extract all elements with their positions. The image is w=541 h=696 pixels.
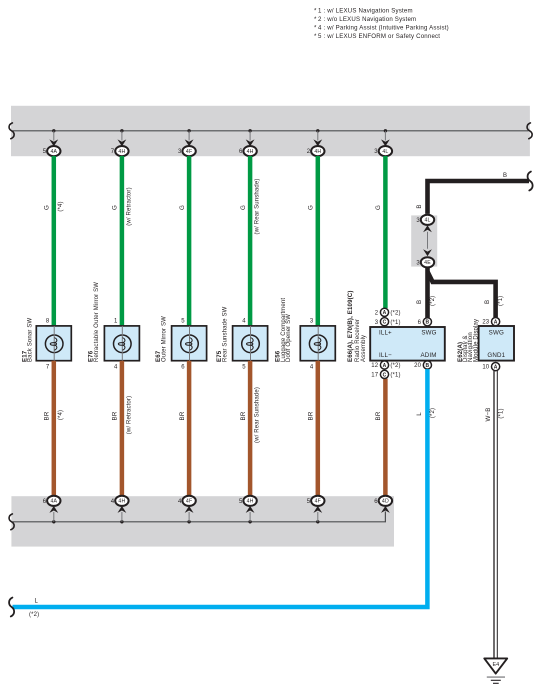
connector 5 (4A) top (43, 131, 61, 156)
svg-text:4: 4 (178, 499, 182, 505)
junction dot, bottom bus col 2 (120, 520, 123, 523)
svg-text:G: G (375, 205, 382, 210)
connector 4 (4F) bottom (178, 496, 196, 513)
connector 4 (4H) bottom (111, 496, 129, 513)
svg-text:4L: 4L (382, 149, 388, 155)
bottom bus shield band (11, 496, 394, 546)
svg-text:3: 3 (178, 149, 182, 155)
svg-text:B: B (426, 363, 430, 369)
svg-text:8: 8 (46, 319, 50, 325)
svg-text:6: 6 (181, 364, 185, 370)
svg-text:20: 20 (414, 363, 421, 369)
svg-text:5: 5 (43, 149, 47, 155)
junction dot, top bus col 2 (120, 129, 123, 132)
svg-text:(*2): (*2) (430, 296, 436, 306)
svg-text:BR: BR (375, 411, 382, 420)
connector 3 (4L) (416, 215, 434, 233)
svg-text:4A: 4A (50, 499, 57, 505)
wire B to radio SWG (416, 267, 436, 318)
svg-text:BR: BR (308, 411, 315, 420)
wire L from radio ADIM to left (13, 369, 437, 618)
wire B branch to display SWG (428, 272, 505, 318)
svg-text:23: 23 (482, 320, 489, 326)
svg-text:4E: 4E (424, 260, 431, 266)
junction dot, top bus col 6 (384, 129, 387, 132)
junction dot, top bus col 3 (187, 129, 190, 132)
svg-text:12: 12 (371, 363, 378, 369)
note legend (314, 7, 449, 40)
svg-text:Outer Mirror SW: Outer Mirror SW (161, 316, 167, 362)
svg-text:BR: BR (112, 411, 119, 420)
svg-text:3: 3 (416, 218, 420, 224)
svg-text:(w/ Rear Sunshade): (w/ Rear Sunshade) (255, 387, 261, 443)
display E62(A) Display & Navigation Module Display (457, 319, 514, 362)
svg-text:10: 10 (482, 365, 489, 371)
svg-text:(*4): (*4) (58, 201, 64, 211)
wire G col 4 (240, 156, 261, 326)
switch E75 Rear Sunshade SW (216, 306, 268, 370)
svg-text:Radio Receiver: Radio Receiver (355, 319, 361, 362)
svg-text:G: G (44, 205, 51, 210)
pin 3 (C) radio (375, 318, 401, 326)
svg-text:17: 17 (371, 373, 378, 379)
bottom bus wire (13, 512, 386, 522)
svg-text:5: 5 (181, 319, 185, 325)
svg-text:L: L (416, 412, 423, 416)
switch E67 Outer Mirror SW (155, 316, 207, 370)
svg-text:ILL−: ILL− (379, 352, 392, 359)
switch E56 Luggage Compartment Door Opener SW (274, 298, 335, 371)
svg-text:(*1): (*1) (390, 320, 400, 326)
svg-text:3: 3 (374, 149, 378, 155)
svg-text:7: 7 (46, 364, 50, 370)
connector 6 (4A) bottom (43, 496, 61, 513)
svg-text:A: A (494, 320, 498, 326)
svg-text:Assembly: Assembly (361, 335, 367, 362)
wire BR col 1 (44, 361, 65, 496)
svg-text:* 5 : w/ LEXUS ENFORM or Safet: * 5 : w/ LEXUS ENFORM or Safety Connect (314, 33, 440, 40)
svg-text:3: 3 (310, 319, 314, 325)
wire W-B from display GND1 to ground (485, 371, 505, 659)
wire BR col 2 (112, 361, 133, 496)
wire BR col 6 (375, 379, 385, 496)
svg-text:4F: 4F (315, 499, 321, 505)
svg-text:2: 2 (307, 149, 311, 155)
svg-text:4H: 4H (118, 149, 125, 155)
svg-text:(w/ Retractor): (w/ Retractor) (126, 187, 132, 225)
wire G col 1 (44, 156, 65, 326)
svg-text:E4: E4 (492, 662, 499, 668)
svg-text:C: C (383, 372, 387, 378)
svg-text:4L: 4L (424, 218, 430, 224)
top bus wire (13, 130, 529, 132)
svg-text:Back Sonar SW: Back Sonar SW (28, 318, 34, 362)
pin 10 (A) display (482, 363, 499, 371)
svg-text:ILL+: ILL+ (379, 330, 392, 337)
svg-text:1: 1 (114, 319, 118, 325)
svg-text:B: B (503, 173, 507, 179)
wire G col 6 (375, 156, 385, 308)
svg-text:6: 6 (374, 499, 378, 505)
svg-text:G: G (240, 205, 247, 210)
pin 12 (A) radio (371, 361, 400, 369)
svg-text:4F: 4F (186, 149, 192, 155)
junction dot, top bus col 1 (52, 129, 55, 132)
svg-text:B: B (484, 300, 491, 304)
svg-text:5: 5 (307, 499, 311, 505)
svg-text:3: 3 (375, 320, 379, 326)
svg-text:Rear Sunshade SW: Rear Sunshade SW (222, 306, 228, 362)
svg-text:(*2): (*2) (430, 408, 436, 418)
svg-text:B: B (416, 204, 423, 208)
svg-text:4H: 4H (118, 499, 125, 505)
svg-text:ADIM: ADIM (420, 352, 436, 359)
svg-text:(*2): (*2) (390, 363, 400, 369)
wire break, wire L left end (9, 598, 14, 617)
svg-text:4: 4 (114, 364, 118, 370)
svg-text:4H: 4H (247, 499, 254, 505)
svg-text:A: A (494, 365, 498, 371)
svg-text:7: 7 (111, 149, 115, 155)
svg-text:W−B: W−B (485, 407, 492, 421)
svg-text:C: C (383, 320, 387, 326)
svg-text:* 4 : w/ Parking Assist (Intui: * 4 : w/ Parking Assist (Intuitive Parki… (314, 25, 449, 32)
connector 3 (4E) (416, 249, 434, 267)
wire G col 3 (179, 156, 189, 326)
svg-text:SWG: SWG (421, 330, 436, 337)
svg-text:4H: 4H (314, 149, 321, 155)
junction dot, bottom bus col 5 (316, 520, 319, 523)
junction dot, bottom bus col 1 (52, 520, 55, 523)
pin 17 (C) radio (371, 370, 400, 378)
junction dot, top bus col 4 (248, 129, 251, 132)
connector 5 (4H) bottom (239, 496, 257, 513)
svg-text:E66(A), E70(B), E109(C): E66(A), E70(B), E109(C) (347, 290, 354, 362)
connector 3 (4F) top (178, 131, 196, 156)
svg-text:2: 2 (375, 310, 379, 316)
svg-text:6: 6 (43, 499, 47, 505)
svg-text:(*2): (*2) (390, 310, 400, 316)
wire break, wire B right end (528, 172, 533, 191)
svg-text:A: A (383, 363, 387, 369)
svg-text:4F: 4F (186, 499, 192, 505)
svg-text:SWG: SWG (489, 329, 504, 336)
svg-text:4: 4 (242, 319, 246, 325)
svg-text:BR: BR (179, 411, 186, 420)
svg-text:GND1: GND1 (487, 352, 505, 359)
svg-text:G: G (179, 205, 186, 210)
wire G col 2 (112, 156, 133, 326)
top bus shield band (11, 106, 530, 156)
wire break, bottom bus left end (9, 514, 14, 530)
switch E17 Back Sonar SW (21, 318, 71, 371)
svg-text:(*2): (*2) (29, 612, 39, 618)
svg-text:4: 4 (310, 364, 314, 370)
connector 2 (4H) top (307, 131, 325, 156)
pin 23 (A) display (482, 318, 499, 326)
svg-text:Door Opener SW: Door Opener SW (286, 314, 292, 362)
wire G col 5 (308, 156, 318, 326)
junction dot, top bus col 5 (316, 129, 319, 132)
svg-text:4H: 4H (247, 149, 254, 155)
wire BR col 4 (240, 361, 261, 496)
svg-text:A: A (383, 310, 387, 316)
svg-text:* 2 : w/o LEXUS Navigation Sys: * 2 : w/o LEXUS Navigation System (314, 16, 416, 23)
switch E76 Retractable Outer Mirror SW (88, 282, 140, 371)
svg-text:B: B (416, 300, 423, 304)
svg-text:(*1): (*1) (498, 408, 504, 418)
svg-text:5: 5 (242, 364, 246, 370)
svg-text:(*1): (*1) (498, 296, 504, 306)
svg-text:6: 6 (239, 149, 243, 155)
radio receiver assembly E66(A), E70(B), E109(C) (347, 290, 445, 362)
svg-text:(w/ Rear Sunshade): (w/ Rear Sunshade) (255, 178, 261, 234)
svg-text:3: 3 (416, 260, 420, 266)
pin 2 (A) radio (375, 308, 401, 316)
junction dot, bottom bus col 3 (187, 520, 190, 523)
pin 6 (B) radio (418, 318, 432, 326)
connector 5 (4F) bottom (307, 496, 325, 513)
svg-text:(*4): (*4) (58, 410, 64, 420)
wire break, top bus left end (9, 123, 14, 139)
svg-text:5: 5 (239, 499, 243, 505)
connector 7 (4H) top (111, 131, 129, 156)
connector 3 (4L) top (374, 131, 392, 156)
svg-text:BR: BR (44, 411, 51, 420)
svg-text:Module Display: Module Display (473, 319, 479, 362)
wire BR col 5 (308, 361, 318, 496)
wire BR col 3 (179, 361, 189, 496)
svg-text:4A: 4A (50, 149, 57, 155)
wire B power feed (top) (428, 181, 530, 214)
wire break, top bus right end (527, 123, 532, 139)
svg-text:Retractable Outer Mirror SW: Retractable Outer Mirror SW (94, 282, 100, 362)
svg-text:G: G (112, 205, 119, 210)
junction connector internal wire (427, 232, 429, 249)
svg-text:L: L (35, 598, 39, 604)
pin 20 (B) radio (414, 361, 431, 369)
junction connector shield (411, 215, 437, 266)
ground E4 (484, 658, 507, 683)
svg-text:* 1 : w/ LEXUS Navigation Syst: * 1 : w/ LEXUS Navigation System (314, 7, 413, 14)
svg-text:(w/ Retractor): (w/ Retractor) (126, 396, 132, 434)
junction dot, bottom bus col 4 (248, 520, 251, 523)
svg-text:4: 4 (111, 499, 115, 505)
svg-text:4D: 4D (382, 499, 389, 505)
connector 6 (4H) top (239, 131, 257, 156)
svg-text:6: 6 (418, 320, 422, 326)
svg-text:B: B (426, 320, 430, 326)
connector 6 (4D) bottom (374, 496, 392, 513)
svg-text:(*1): (*1) (390, 373, 400, 379)
svg-text:G: G (308, 205, 315, 210)
svg-text:BR: BR (240, 411, 247, 420)
